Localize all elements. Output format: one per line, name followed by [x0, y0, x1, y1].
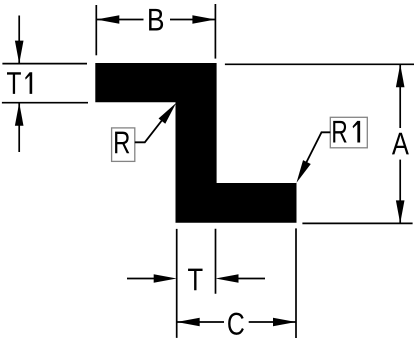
- dimension C: dimension line right segment: [249, 321, 296, 323]
- dimension B: label B: [149, 9, 163, 31]
- dimension C: left arrowhead: [177, 318, 200, 327]
- dimension A: upper dimension line segment: [399, 64, 401, 128]
- dimension B: dimension line left segment: [96, 19, 143, 21]
- label R1: text R1: [333, 121, 347, 143]
- dimension T1: upper dimension line: [18, 16, 20, 64]
- dimension C: label C: [228, 313, 244, 335]
- dimension A: lower dimension line segment: [399, 160, 401, 224]
- dimension T1: label digit 1: [25, 72, 32, 94]
- dimension T1: label T1: [7, 72, 21, 94]
- label R: boxed label: [112, 128, 135, 161]
- Z-profile cross-section (filled shape): [95, 63, 296, 223]
- dimension T: left tail line: [127, 278, 160, 280]
- label R1: boxed label: [330, 117, 367, 148]
- label R: leader arrowhead: [159, 103, 177, 124]
- dimension C: right extension line: [295, 228, 297, 338]
- dimension T: right-pointing arrowhead: [154, 274, 177, 283]
- dimension T1: lower extension line: [2, 102, 88, 104]
- dimension T1: down arrowhead: [15, 41, 24, 64]
- dimension A: bottom extension line: [302, 222, 412, 224]
- dimension C: right arrowhead: [273, 318, 296, 327]
- dimension T1: up arrowhead: [15, 103, 24, 126]
- dimension C: dimension line left segment: [177, 321, 224, 323]
- label R: letter R: [115, 132, 129, 154]
- dimension A: down arrowhead: [396, 200, 405, 223]
- label R1: leader line: [301, 132, 330, 173]
- dimension T: left extension line (shared with C): [176, 229, 178, 338]
- dimension T1: lower dimension line: [18, 103, 20, 152]
- dimension B: left extension line: [95, 5, 97, 55]
- dimension A: up arrowhead: [396, 64, 405, 87]
- dimension A: top extension line: [225, 63, 414, 65]
- dimension T: left-pointing arrowhead: [216, 274, 239, 283]
- dimension B: right arrowhead: [192, 15, 215, 24]
- dimension B: right extension line: [214, 4, 216, 59]
- dimension T: right extension line: [215, 229, 217, 294]
- label R1: digit 1: [353, 121, 361, 143]
- dimension B: dimension line right segment: [170, 19, 215, 21]
- dimension B: left arrowhead: [96, 15, 119, 24]
- dimension T: label T: [188, 269, 203, 291]
- label R: leader line: [135, 110, 170, 142]
- dimension A: label A: [392, 133, 409, 155]
- dimension T: right tail line: [232, 278, 265, 280]
- dimension T1: upper extension line: [2, 63, 87, 65]
- label R1: leader arrowhead: [297, 160, 311, 183]
